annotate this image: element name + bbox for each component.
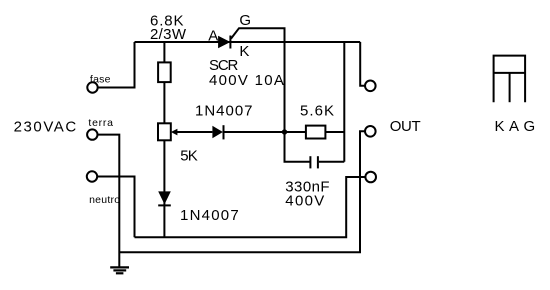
- svg-text:K: K: [239, 43, 249, 60]
- svg-text:230VAC: 230VAC: [14, 118, 77, 135]
- svg-text:2/3W: 2/3W: [150, 26, 187, 43]
- svg-text:G: G: [239, 12, 251, 29]
- svg-text:1N4007: 1N4007: [195, 102, 253, 119]
- svg-text:fase: fase: [90, 73, 111, 85]
- svg-text:5.6K: 5.6K: [300, 103, 334, 120]
- svg-text:neutro: neutro: [89, 194, 120, 206]
- svg-text:5K: 5K: [180, 147, 198, 164]
- svg-text:terra: terra: [88, 117, 113, 129]
- svg-text:400V: 400V: [285, 193, 324, 210]
- svg-text:1N4007: 1N4007: [180, 207, 239, 224]
- svg-text:OUT: OUT: [390, 118, 421, 135]
- svg-text:K A G: K A G: [495, 118, 536, 135]
- svg-text:A: A: [208, 27, 218, 44]
